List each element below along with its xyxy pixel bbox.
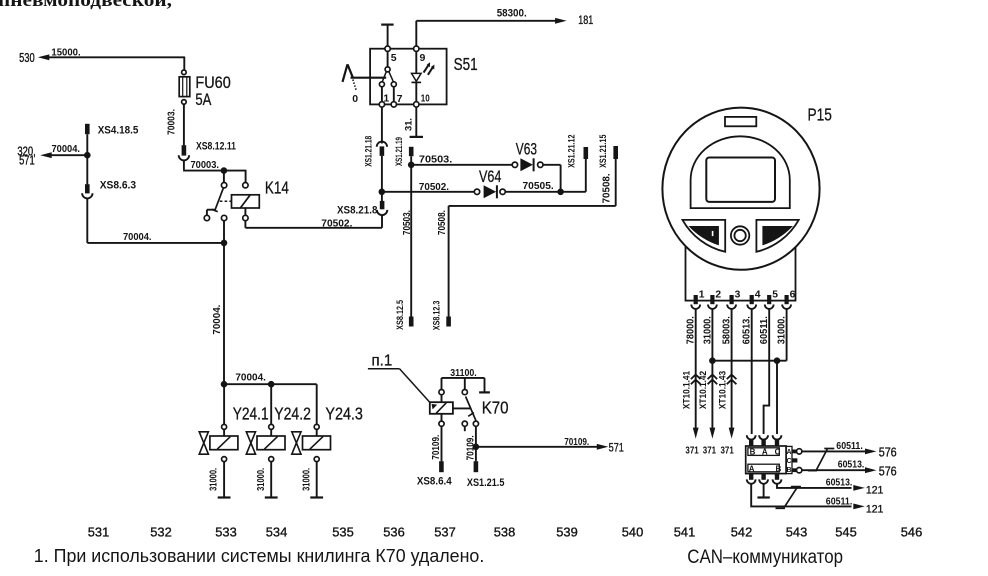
svg-text:XT10.1.41: XT10.1.41 [681, 370, 692, 409]
svg-text:545: 545 [835, 525, 857, 540]
svg-text:58300.: 58300. [497, 8, 527, 20]
svg-text:XT10.1.43: XT10.1.43 [717, 371, 728, 409]
svg-text:70508.: 70508. [437, 210, 448, 235]
svg-text:7: 7 [397, 93, 403, 105]
svg-text:P15: P15 [808, 104, 832, 124]
svg-text:Y24.3: Y24.3 [325, 403, 363, 423]
svg-text:XS1.21.12: XS1.21.12 [567, 135, 578, 168]
svg-text:70505.: 70505. [523, 181, 554, 192]
svg-text:31000.: 31000. [256, 468, 267, 491]
svg-text:CAN–коммуникатор: CAN–коммуникатор [687, 547, 843, 568]
svg-text:XS1.21.19: XS1.21.19 [394, 137, 405, 166]
svg-text:536: 536 [383, 525, 405, 540]
svg-text:V64: V64 [479, 168, 501, 186]
svg-text:70508.: 70508. [601, 173, 612, 203]
svg-text:2: 2 [715, 289, 721, 300]
svg-text:XS8.6.4: XS8.6.4 [417, 476, 452, 488]
svg-text:70004.: 70004. [212, 304, 223, 334]
svg-text:31000.: 31000. [209, 468, 220, 491]
svg-text:K14: K14 [265, 177, 289, 197]
svg-text:70503.: 70503. [402, 210, 413, 235]
svg-text:60513.: 60513. [826, 478, 853, 489]
svg-text:576: 576 [879, 446, 897, 460]
svg-text:60511.: 60511. [826, 496, 853, 507]
svg-text:537: 537 [434, 525, 456, 540]
svg-text:XS1.21.15: XS1.21.15 [598, 134, 609, 168]
svg-text:543: 543 [786, 525, 808, 540]
svg-text:31000.: 31000. [301, 468, 312, 491]
svg-text:70503.: 70503. [419, 154, 453, 165]
svg-text:Y24.2: Y24.2 [274, 403, 311, 423]
svg-text:A: A [786, 449, 791, 456]
svg-text:0: 0 [352, 93, 358, 105]
svg-text:540: 540 [622, 525, 644, 540]
svg-text:XS4.18.5: XS4.18.5 [98, 124, 139, 136]
svg-text:535: 535 [332, 525, 354, 540]
svg-text:XS1.21.5: XS1.21.5 [467, 477, 505, 489]
svg-text:531: 531 [88, 525, 110, 540]
svg-text:A: A [749, 464, 755, 473]
svg-text:10: 10 [421, 93, 430, 105]
svg-text:70502.: 70502. [321, 218, 352, 229]
svg-text:371: 371 [721, 446, 735, 457]
svg-text:371: 371 [685, 446, 699, 457]
svg-text:5: 5 [772, 289, 778, 300]
svg-text:70003.: 70003. [166, 109, 177, 135]
svg-text:1. При использовании системы к: 1. При использовании системы книлинга К7… [34, 545, 485, 566]
svg-text:XS8.21.8: XS8.21.8 [337, 205, 377, 217]
svg-text:S51: S51 [454, 54, 478, 74]
svg-text:1: 1 [383, 93, 389, 105]
svg-text:5A: 5A [195, 90, 212, 109]
svg-text:70004.: 70004. [52, 144, 81, 155]
svg-text:XS1.21.18: XS1.21.18 [364, 135, 375, 166]
svg-text:31.: 31. [404, 118, 415, 131]
svg-text:1: 1 [699, 289, 705, 300]
svg-text:V63: V63 [516, 140, 537, 158]
svg-text:6: 6 [790, 289, 796, 300]
svg-text:538: 538 [494, 525, 516, 540]
svg-text:532: 532 [150, 525, 172, 540]
svg-text:XS8.6.3: XS8.6.3 [100, 180, 136, 192]
svg-text:п.1: п.1 [372, 353, 393, 370]
svg-text:534: 534 [266, 525, 288, 540]
svg-text:576: 576 [879, 464, 897, 478]
svg-text:70109.: 70109. [431, 435, 442, 460]
svg-text:121: 121 [866, 503, 884, 515]
svg-text:70004.: 70004. [123, 232, 152, 243]
svg-text:546: 546 [901, 525, 923, 540]
svg-text:XT10.1.42: XT10.1.42 [698, 371, 709, 409]
svg-text:70109.: 70109. [564, 437, 589, 448]
svg-text:530: 530 [19, 50, 35, 65]
svg-text:70004.: 70004. [235, 373, 266, 384]
svg-text:60511.: 60511. [836, 441, 863, 452]
svg-text:539: 539 [556, 525, 578, 540]
svg-text:9: 9 [420, 52, 426, 64]
svg-text:15000.: 15000. [51, 48, 80, 59]
svg-text:C: C [775, 447, 781, 456]
svg-text:4: 4 [755, 289, 761, 300]
svg-text:371: 371 [703, 446, 717, 457]
svg-text:пневмоподвеской,: пневмоподвеской, [0, 0, 172, 11]
svg-text:121: 121 [866, 485, 884, 497]
svg-text:542: 542 [731, 525, 753, 540]
svg-text:XS8.12.11: XS8.12.11 [196, 141, 236, 153]
svg-text:3: 3 [735, 289, 741, 300]
svg-text:C: C [786, 458, 791, 465]
svg-text:70109.: 70109. [466, 435, 477, 460]
svg-text:533: 533 [215, 525, 237, 540]
svg-text:5: 5 [391, 52, 397, 64]
svg-text:A: A [762, 447, 768, 456]
svg-text:70003.: 70003. [191, 160, 220, 171]
svg-text:Y24.1: Y24.1 [233, 403, 269, 423]
svg-text:B: B [786, 467, 791, 474]
svg-text:XS8.12.3: XS8.12.3 [432, 301, 443, 331]
svg-text:60513.: 60513. [838, 460, 865, 471]
svg-text:K70: K70 [482, 398, 509, 418]
svg-text:70502.: 70502. [419, 182, 449, 193]
svg-text:571: 571 [19, 154, 35, 168]
svg-text:181: 181 [578, 15, 593, 27]
svg-text:XS8.12.5: XS8.12.5 [395, 299, 406, 329]
svg-text:571: 571 [609, 441, 624, 455]
svg-text:B: B [750, 447, 756, 456]
svg-text:B: B [776, 464, 782, 473]
svg-text:541: 541 [674, 525, 696, 540]
